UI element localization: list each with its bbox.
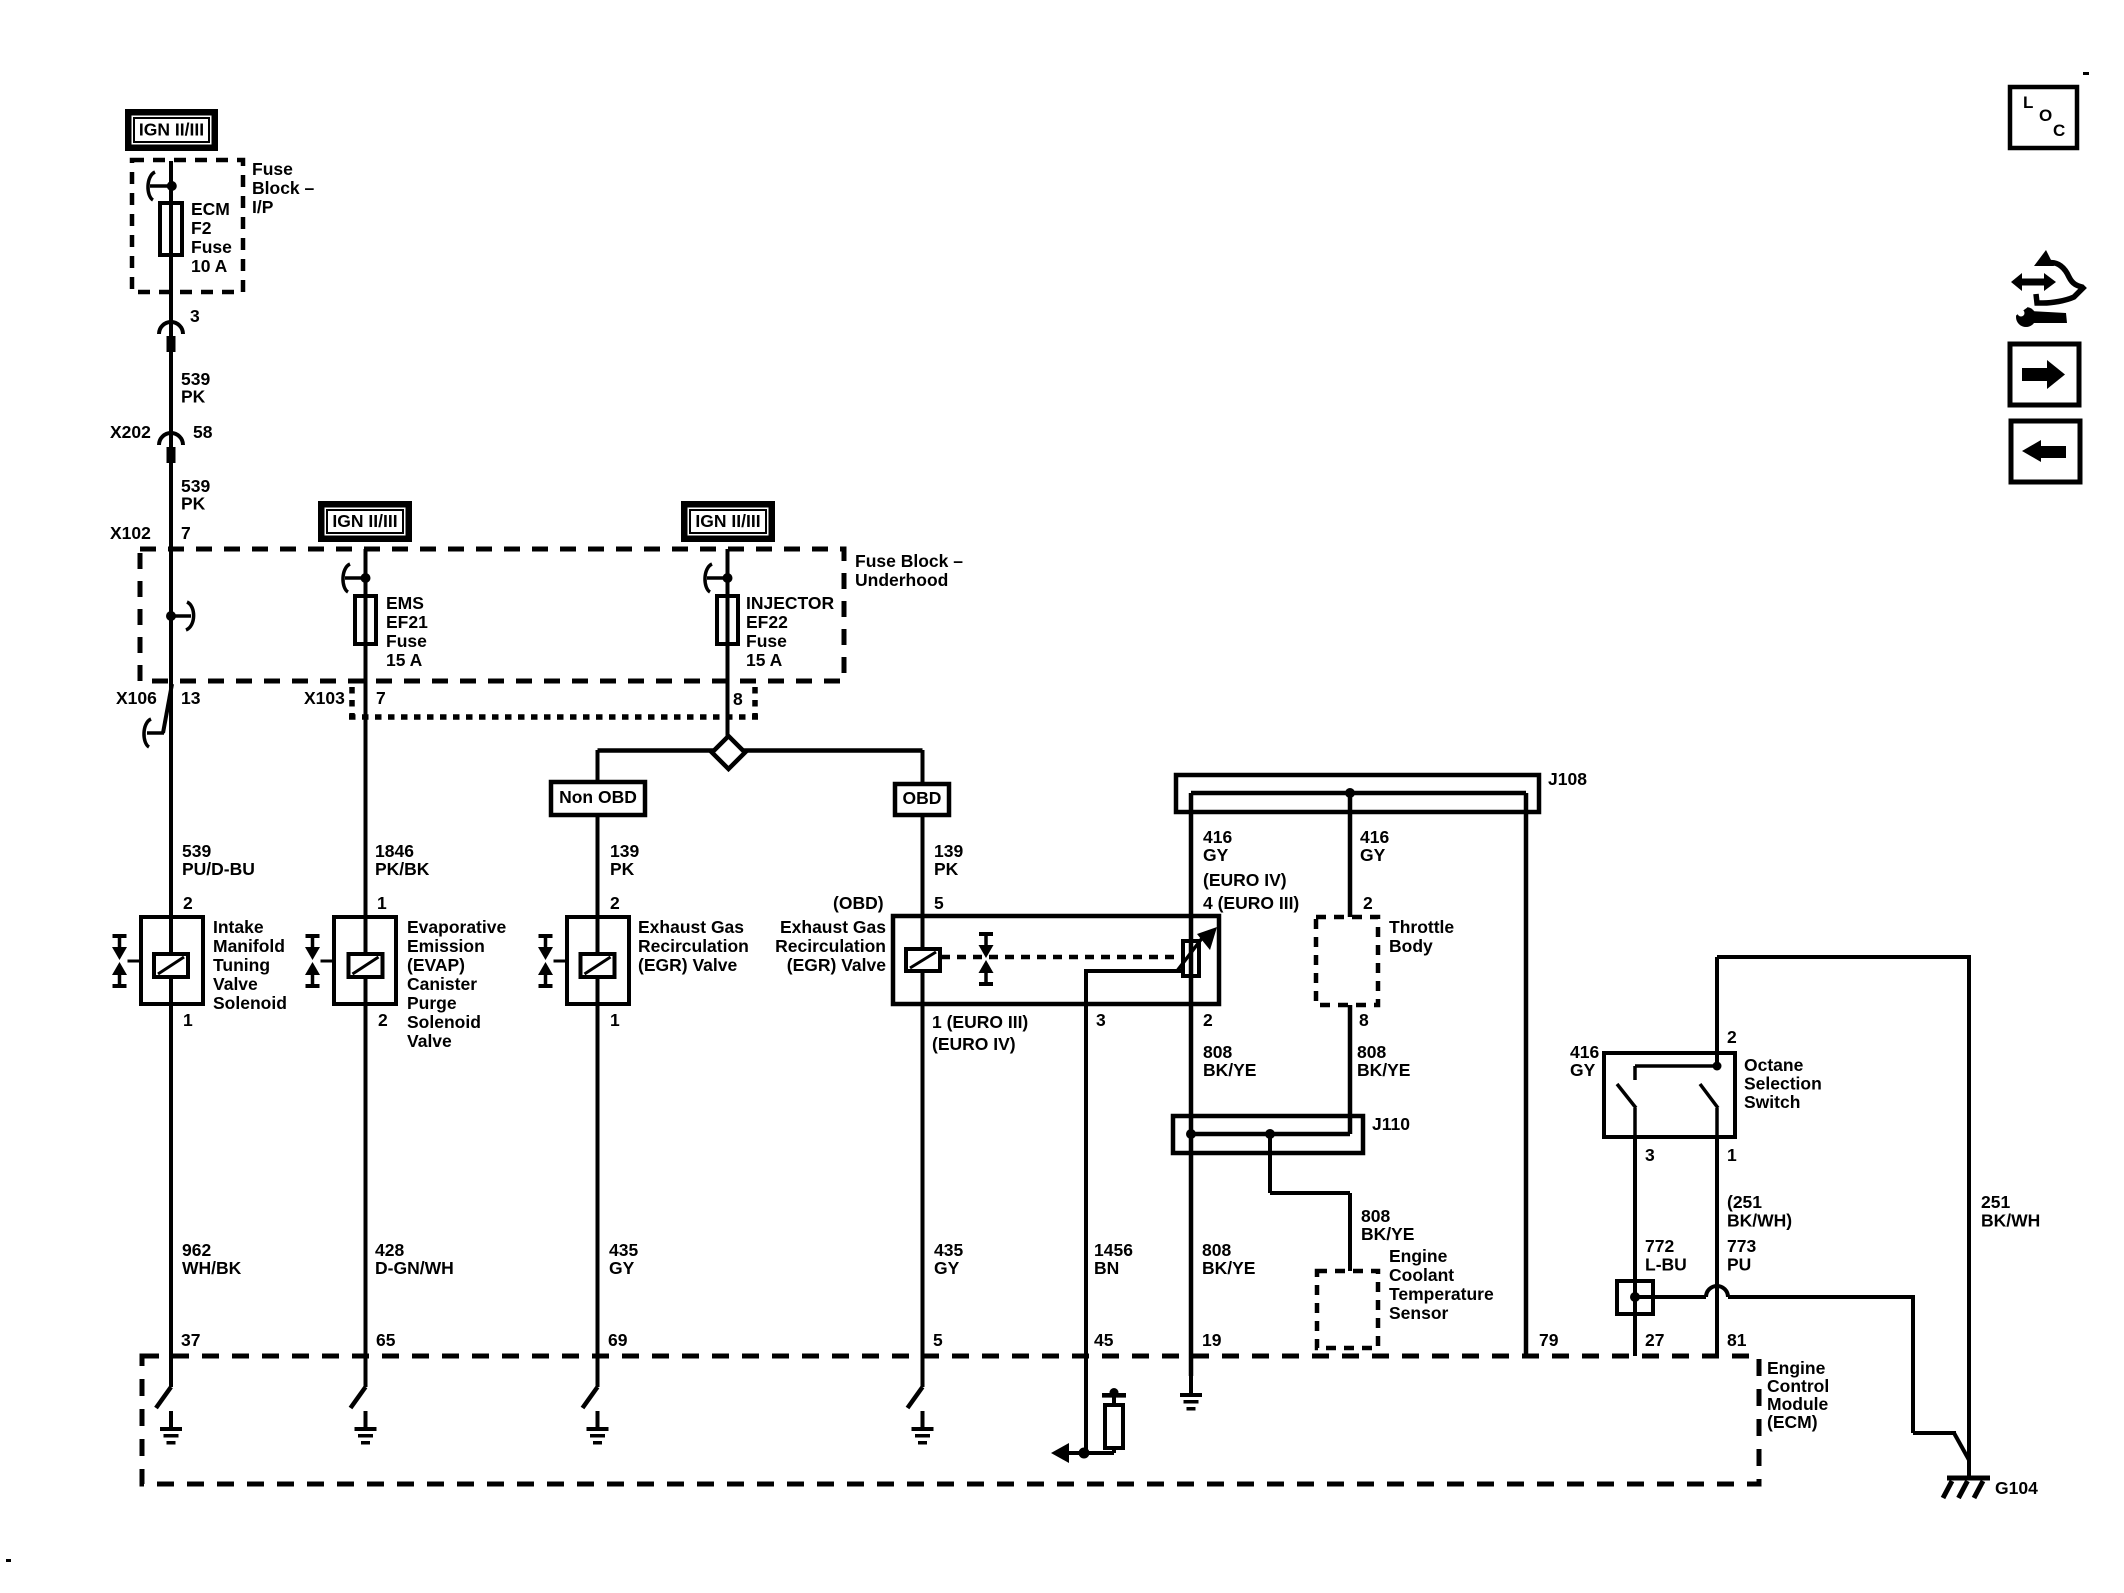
svg-text:962: 962: [182, 1240, 211, 1260]
svg-text:1: 1: [377, 893, 387, 913]
svg-text:8: 8: [1359, 1010, 1369, 1030]
svg-text:Solenoid: Solenoid: [407, 1012, 481, 1032]
svg-text:Recirculation: Recirculation: [638, 936, 749, 956]
svg-text:Engine: Engine: [1389, 1246, 1448, 1266]
svg-text:D-GN/WH: D-GN/WH: [375, 1258, 454, 1278]
svg-text:45: 45: [1094, 1330, 1114, 1350]
svg-text:Module: Module: [1767, 1394, 1829, 1414]
svg-text:139: 139: [934, 841, 963, 861]
svg-text:BK/WH): BK/WH): [1727, 1211, 1792, 1231]
svg-text:808: 808: [1203, 1042, 1232, 1062]
svg-text:(251: (251: [1727, 1192, 1762, 1212]
svg-text:PK: PK: [181, 494, 206, 514]
svg-text:G104: G104: [1995, 1478, 2038, 1498]
svg-text:L-BU: L-BU: [1645, 1255, 1687, 1275]
svg-text:Octane: Octane: [1744, 1055, 1804, 1075]
svg-text:IGN II/III: IGN II/III: [695, 511, 760, 531]
svg-text:58: 58: [193, 422, 213, 442]
svg-text:69: 69: [608, 1330, 628, 1350]
svg-text:(EVAP): (EVAP): [407, 955, 465, 975]
svg-text:PK: PK: [934, 859, 959, 879]
svg-text:Throttle: Throttle: [1389, 917, 1454, 937]
svg-text:8: 8: [733, 689, 743, 709]
svg-text:Non OBD: Non OBD: [559, 787, 637, 807]
svg-text:(EURO IV): (EURO IV): [1203, 870, 1287, 890]
svg-text:1: 1: [183, 1010, 193, 1030]
svg-text:(ECM): (ECM): [1767, 1412, 1818, 1432]
svg-text:7: 7: [181, 523, 191, 543]
svg-text:2: 2: [1727, 1027, 1737, 1047]
svg-text:Fuse: Fuse: [386, 631, 427, 651]
svg-text:BK/YE: BK/YE: [1202, 1258, 1255, 1278]
svg-text:Switch: Switch: [1744, 1092, 1800, 1112]
svg-text:Temperature: Temperature: [1389, 1284, 1494, 1304]
svg-text:Evaporative: Evaporative: [407, 917, 506, 937]
svg-text:1456: 1456: [1094, 1240, 1133, 1260]
svg-text:13: 13: [181, 688, 201, 708]
svg-text:PK/BK: PK/BK: [375, 859, 430, 879]
svg-text:(OBD): (OBD): [833, 893, 884, 913]
svg-text:27: 27: [1645, 1330, 1664, 1350]
svg-text:1 (EURO III): 1 (EURO III): [932, 1012, 1028, 1032]
svg-text:Intake: Intake: [213, 917, 264, 937]
svg-text:2: 2: [378, 1010, 388, 1030]
svg-text:EF21: EF21: [386, 612, 428, 632]
svg-text:Underhood: Underhood: [855, 570, 948, 590]
svg-text:Engine: Engine: [1767, 1358, 1826, 1378]
svg-text:3: 3: [190, 306, 200, 326]
svg-text:J110: J110: [1372, 1114, 1410, 1134]
svg-text:F2: F2: [191, 218, 212, 238]
svg-text:Fuse: Fuse: [252, 159, 293, 179]
svg-text:5: 5: [933, 1330, 943, 1350]
svg-text:GY: GY: [1360, 845, 1386, 865]
svg-text:PK: PK: [610, 859, 635, 879]
svg-text:X103: X103: [304, 688, 345, 708]
svg-text:416: 416: [1203, 827, 1232, 847]
svg-text:Body: Body: [1389, 936, 1433, 956]
svg-text:2: 2: [1203, 1010, 1213, 1030]
svg-text:416: 416: [1570, 1042, 1599, 1062]
svg-text:Sensor: Sensor: [1389, 1303, 1449, 1323]
svg-text:Exhaust Gas: Exhaust Gas: [638, 917, 744, 937]
svg-text:139: 139: [610, 841, 639, 861]
svg-text:X106: X106: [116, 688, 157, 708]
svg-text:BK/YE: BK/YE: [1203, 1060, 1256, 1080]
svg-text:1: 1: [1727, 1145, 1737, 1165]
svg-text:BK/WH: BK/WH: [1981, 1211, 2040, 1231]
svg-text:Fuse Block –: Fuse Block –: [855, 551, 963, 571]
svg-text:EMS: EMS: [386, 593, 424, 613]
svg-text:Manifold: Manifold: [213, 936, 285, 956]
svg-text:539: 539: [182, 841, 211, 861]
svg-text:Recirculation: Recirculation: [775, 936, 886, 956]
svg-text:251: 251: [1981, 1192, 2010, 1212]
svg-text:OBD: OBD: [903, 788, 942, 808]
svg-text:5: 5: [934, 893, 944, 913]
svg-text:19: 19: [1202, 1330, 1222, 1350]
svg-text:435: 435: [609, 1240, 638, 1260]
svg-text:GY: GY: [609, 1258, 635, 1278]
svg-text:65: 65: [376, 1330, 396, 1350]
svg-text:Emission: Emission: [407, 936, 485, 956]
svg-text:15 A: 15 A: [746, 650, 783, 670]
svg-text:1846: 1846: [375, 841, 414, 861]
svg-text:808: 808: [1202, 1240, 1231, 1260]
svg-text:IGN II/III: IGN II/III: [332, 511, 397, 531]
svg-text:PK: PK: [181, 387, 206, 407]
svg-text:808: 808: [1361, 1206, 1390, 1226]
svg-text:79: 79: [1539, 1330, 1559, 1350]
svg-text:Exhaust Gas: Exhaust Gas: [780, 917, 886, 937]
svg-text:3: 3: [1096, 1010, 1106, 1030]
svg-text:GY: GY: [934, 1258, 960, 1278]
svg-text:435: 435: [934, 1240, 963, 1260]
svg-text:10 A: 10 A: [191, 256, 228, 276]
svg-text:808: 808: [1357, 1042, 1386, 1062]
svg-text:GY: GY: [1570, 1060, 1596, 1080]
svg-text:BN: BN: [1094, 1258, 1119, 1278]
svg-text:EF22: EF22: [746, 612, 788, 632]
svg-text:Valve: Valve: [407, 1031, 452, 1051]
svg-text:4 (EURO III): 4 (EURO III): [1203, 893, 1299, 913]
svg-text:ECM: ECM: [191, 199, 230, 219]
svg-text:BK/YE: BK/YE: [1361, 1224, 1414, 1244]
svg-text:WH/BK: WH/BK: [182, 1258, 242, 1278]
svg-text:INJECTOR: INJECTOR: [746, 593, 835, 613]
svg-text:Block –: Block –: [252, 178, 315, 198]
svg-text:I/P: I/P: [252, 197, 274, 217]
svg-text:Canister: Canister: [407, 974, 477, 994]
svg-text:772: 772: [1645, 1236, 1674, 1256]
svg-text:3: 3: [1645, 1145, 1655, 1165]
svg-text:37: 37: [181, 1330, 200, 1350]
svg-text:X102: X102: [110, 523, 151, 543]
svg-text:416: 416: [1360, 827, 1389, 847]
svg-text:1: 1: [610, 1010, 620, 1030]
svg-text:(EGR) Valve: (EGR) Valve: [638, 955, 737, 975]
svg-text:Valve: Valve: [213, 974, 258, 994]
svg-text:Purge: Purge: [407, 993, 457, 1013]
svg-text:PU/D-BU: PU/D-BU: [182, 859, 255, 879]
svg-text:PU: PU: [1727, 1255, 1751, 1275]
svg-text:2: 2: [183, 893, 193, 913]
svg-text:7: 7: [376, 688, 386, 708]
svg-text:Solenoid: Solenoid: [213, 993, 287, 1013]
svg-text:Tuning: Tuning: [213, 955, 270, 975]
svg-text:IGN II/III: IGN II/III: [139, 120, 204, 140]
svg-text:2: 2: [1363, 893, 1373, 913]
svg-text:15 A: 15 A: [386, 650, 423, 670]
svg-text:428: 428: [375, 1240, 404, 1260]
svg-text:Fuse: Fuse: [191, 237, 232, 257]
svg-text:(EGR) Valve: (EGR) Valve: [787, 955, 886, 975]
svg-text:Coolant: Coolant: [1389, 1265, 1454, 1285]
svg-text:81: 81: [1727, 1330, 1747, 1350]
svg-text:(EURO IV): (EURO IV): [932, 1034, 1016, 1054]
svg-text:GY: GY: [1203, 845, 1229, 865]
svg-text:C: C: [2053, 121, 2065, 140]
svg-text:L: L: [2023, 93, 2033, 112]
svg-text:2: 2: [610, 893, 620, 913]
svg-text:X202: X202: [110, 422, 151, 442]
svg-text:J108: J108: [1548, 769, 1587, 789]
svg-text:O: O: [2039, 106, 2052, 125]
svg-text:Fuse: Fuse: [746, 631, 787, 651]
svg-text:Control: Control: [1767, 1376, 1829, 1396]
svg-text:Selection: Selection: [1744, 1074, 1822, 1094]
svg-text:773: 773: [1727, 1236, 1756, 1256]
svg-text:BK/YE: BK/YE: [1357, 1060, 1410, 1080]
